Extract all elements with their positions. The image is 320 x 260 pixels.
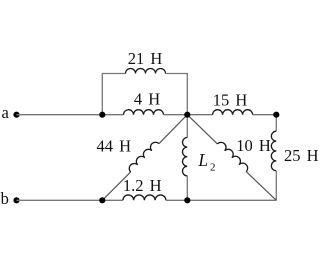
svg-text:1.2 H: 1.2 H	[123, 176, 162, 195]
value label L2	[197, 150, 215, 174]
svg-text:25 H: 25 H	[284, 146, 319, 165]
wire L2 coil to bottom-middle node	[186, 176, 188, 200]
inductor L 44H coil (diagonal)	[129, 142, 159, 172]
wire 10H coil to bottom-right corner (diagonal)	[246, 172, 276, 201]
bottom-middle node	[184, 197, 190, 203]
bottom junction node	[99, 197, 105, 203]
svg-text:a: a	[2, 103, 10, 122]
inductor L 1.2H coil	[123, 195, 166, 200]
svg-text:b: b	[1, 189, 9, 208]
wire center node to 15H coil	[187, 114, 212, 116]
wire center node to 10H coil (diagonal)	[187, 115, 217, 144]
inductor L 4H coil	[124, 110, 164, 115]
wire b to bottom junction	[17, 199, 103, 201]
inductor L 25H coil	[271, 131, 276, 171]
svg-text:10 H: 10 H	[236, 136, 271, 155]
wire 15H coil to right node	[253, 114, 277, 116]
wire 1.2H coil to bottom-middle node	[166, 199, 187, 201]
wire junction to 4H coil	[102, 114, 123, 116]
node b terminal	[1, 189, 20, 208]
right node	[273, 112, 279, 118]
wire 4H coil to center node	[164, 114, 188, 116]
svg-text:44 H: 44 H	[97, 136, 132, 155]
wire bottom junction to 1.2H coil	[102, 199, 123, 201]
wire 25H coil down to bottom-right corner	[275, 171, 277, 200]
svg-text:L: L	[197, 150, 208, 170]
inductor L2 coil	[183, 138, 188, 176]
svg-text:4 H: 4 H	[134, 90, 160, 109]
inductor L 21H coil	[126, 69, 166, 74]
wire bottom junction to 44H coil (diagonal)	[102, 172, 130, 200]
inductor L 10H coil (diagonal)	[217, 142, 247, 171]
wire top-right segment down to center node	[166, 74, 188, 115]
wire a to junction	[17, 114, 103, 116]
wire bottom-middle node to bottom-right corner	[187, 199, 276, 201]
svg-text:15 H: 15 H	[213, 90, 248, 109]
inductor L 15H coil	[213, 110, 253, 115]
svg-text:21 H: 21 H	[128, 49, 163, 68]
wire junction up and top-left segment	[102, 74, 125, 115]
node a terminal	[2, 103, 20, 122]
center node	[184, 112, 190, 118]
junction node on a-row	[99, 112, 105, 118]
svg-text:2: 2	[210, 162, 216, 174]
wire 44H coil to center node (diagonal)	[159, 115, 187, 144]
wire center node down to L2 coil	[186, 115, 188, 138]
wire right node down to 25H coil	[275, 115, 277, 131]
